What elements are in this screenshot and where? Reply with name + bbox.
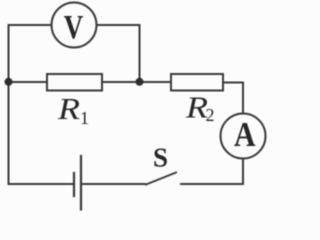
svg-text:2: 2 xyxy=(206,105,215,125)
svg-text:V: V xyxy=(64,9,84,46)
svg-text:A: A xyxy=(234,115,256,154)
svg-text:1: 1 xyxy=(80,108,89,128)
svg-text:R: R xyxy=(57,91,80,126)
svg-text:S: S xyxy=(153,143,168,173)
